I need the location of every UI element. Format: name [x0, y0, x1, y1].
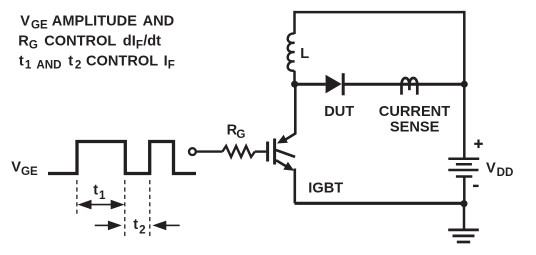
wire top rail	[295, 11, 465, 14]
wire junction to diode	[295, 83, 326, 86]
wire bottom rail	[295, 202, 465, 205]
wire IGBT emitter down	[293, 169, 296, 204]
svg-text:R: R	[18, 33, 29, 49]
label battery minus	[473, 185, 479, 187]
svg-text:t: t	[93, 183, 98, 199]
wire IGBT middle diagonal	[276, 150, 295, 157]
note line 1: VGE AMPLITUDE AND	[20, 13, 174, 31]
diode DUT anode triangle	[326, 75, 342, 94]
diode DUT cathode bar	[342, 73, 345, 95]
svg-text:DUT: DUT	[324, 104, 354, 120]
svg-text:GE: GE	[31, 19, 48, 32]
wire VGE pulse waveform	[48, 142, 196, 174]
note line 2: RG CONTROL dIF/dt	[18, 33, 161, 51]
label t1	[93, 183, 106, 202]
svg-text:IGBT: IGBT	[308, 180, 343, 196]
dimension arrow t1	[78, 200, 125, 210]
svg-text:V: V	[11, 159, 21, 175]
current sense pickup coil	[402, 78, 418, 95]
svg-text:/dt: /dt	[143, 33, 161, 49]
wire inductor to junction	[293, 71, 296, 84]
svg-text:CURRENT: CURRENT	[379, 104, 450, 120]
transistor IGBT gate bar	[266, 142, 269, 162]
svg-text:V: V	[486, 160, 496, 176]
svg-text:t: t	[133, 217, 138, 233]
ground	[448, 230, 479, 242]
label VDD	[486, 160, 513, 178]
svg-text:2: 2	[75, 59, 81, 72]
wire IGBT collector bend	[285, 84, 296, 140]
svg-text:G: G	[236, 128, 245, 141]
wire dashed marker rising edge 1	[76, 180, 78, 215]
svg-text:F: F	[136, 39, 143, 52]
transistor IGBT channel bar	[273, 139, 276, 165]
svg-text:AMPLITUDE: AMPLITUDE	[52, 13, 137, 29]
label battery plus	[474, 140, 483, 149]
node junction right top	[461, 81, 468, 88]
svg-text:DD: DD	[497, 166, 514, 179]
resistor RG	[222, 146, 254, 157]
arrow collector into channel	[277, 135, 288, 144]
svg-text:G: G	[29, 39, 38, 52]
wire junction to ground	[463, 204, 466, 229]
svg-text:CONTROL: CONTROL	[44, 33, 116, 49]
wire battery to bottom junction	[463, 177, 466, 204]
svg-text:AND: AND	[143, 13, 175, 29]
dimension arrow t2 left	[95, 221, 122, 231]
node junction bottom	[461, 200, 468, 207]
svg-text:V: V	[20, 13, 30, 29]
arrow emitter out	[283, 162, 294, 171]
svg-text:GE: GE	[21, 165, 38, 178]
label RG	[227, 123, 246, 141]
inductor L	[288, 33, 295, 70]
svg-text:t: t	[68, 53, 73, 69]
battery VDD plates	[448, 159, 479, 177]
node junction left	[291, 81, 298, 88]
label t2	[133, 217, 145, 236]
wire dashed marker falling edge 1	[124, 180, 126, 236]
svg-text:1: 1	[99, 189, 106, 202]
wire IGBT emitter diagonal	[276, 160, 287, 167]
svg-text:L: L	[300, 46, 309, 62]
wire dashed marker rising edge 2	[149, 180, 151, 236]
dimension arrow t2 right	[152, 221, 179, 231]
wire right rail	[463, 11, 466, 158]
svg-text:2: 2	[139, 223, 145, 236]
wire terminal to resistor	[196, 150, 222, 152]
svg-text:dI: dI	[123, 33, 136, 49]
svg-text:SENSE: SENSE	[390, 120, 440, 136]
note line 3: t1 AND t2 CONTROL IF	[19, 53, 175, 71]
node VGE label	[11, 159, 38, 177]
wire resistor to gate	[255, 150, 266, 152]
svg-text:1: 1	[25, 59, 32, 72]
node input terminal (open circle)	[189, 148, 196, 155]
svg-text:t: t	[19, 53, 24, 69]
svg-text:F: F	[168, 59, 175, 72]
wire left vertical above inductor	[293, 11, 296, 34]
svg-text:CONTROL: CONTROL	[86, 53, 158, 69]
svg-text:AND: AND	[36, 59, 61, 72]
wire diode to current sense	[345, 83, 465, 86]
